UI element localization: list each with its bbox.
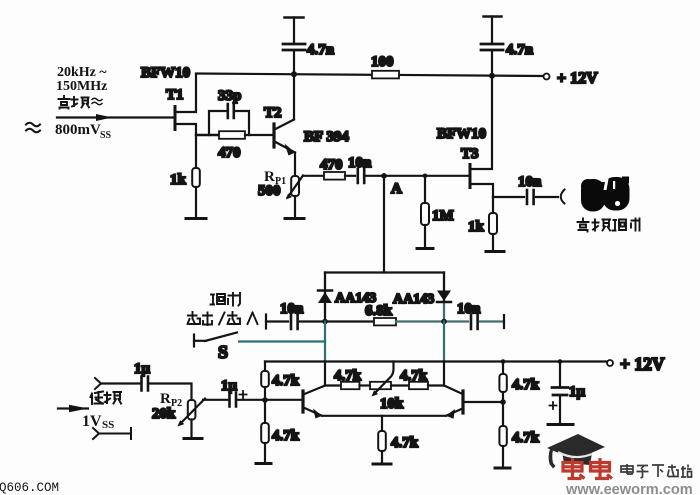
wire right 4.7k stack top lead: [502, 362, 504, 375]
svg-text:T3: T3: [461, 146, 479, 162]
wire left 4.7k stack top lead: [264, 362, 266, 372]
svg-text:10n: 10n: [457, 301, 481, 317]
wire 6.8k to 10n right: [396, 320, 468, 322]
svg-text:S: S: [218, 342, 228, 362]
wire top +12V rail: [196, 74, 543, 77]
potentiometer RP2 wiper arrow: [180, 399, 205, 425]
transistor T2 emitter arrowhead: [285, 144, 296, 156]
transistor Q1 (left, diff pair) base bar: [301, 391, 304, 412]
svg-text:20k: 20k: [152, 406, 176, 422]
transistor T2 collector: [276, 74, 295, 129]
wire Q2 base to right stack: [465, 401, 504, 403]
svg-text:4.7n: 4.7n: [506, 42, 534, 58]
resistor 4.7k (right top): [499, 374, 506, 392]
junction dot node top-right (T3 drain / C 4.7n): [489, 73, 495, 79]
junction dot (1u decoupling / rail): [558, 359, 563, 364]
ground (emitter 4.7k): [373, 463, 391, 466]
diode box left vertical upper: [324, 273, 326, 322]
wire C1 top lead: [293, 18, 295, 43]
svg-text:T1: T1: [166, 87, 184, 103]
transistor T3 drain: [472, 76, 493, 169]
LF arrow: [58, 407, 88, 409]
chain wire left: [325, 384, 341, 386]
svg-text:470: 470: [320, 157, 343, 173]
svg-text:Q606.COM: Q606.COM: [0, 481, 59, 495]
svg-text:4.7k: 4.7k: [512, 430, 540, 446]
capacitor 1u (to base) plates: [230, 393, 237, 407]
output terminal arc: [561, 190, 565, 204]
svg-text:1k: 1k: [170, 172, 187, 188]
switch S lever: [205, 333, 237, 342]
terminal +12V (bottom): [607, 360, 613, 366]
wire bottom +12V rail: [265, 360, 607, 362]
wire base junction down: [264, 400, 266, 423]
wire 10n to node A to T3 gate: [366, 175, 470, 177]
resistor 470 (wiper): [324, 172, 345, 180]
diode D2 AA143 cathode bar: [437, 301, 451, 304]
svg-text:1V: 1V: [82, 413, 102, 430]
svg-text:1k: 1k: [468, 219, 485, 235]
svg-text:4.7k: 4.7k: [272, 428, 300, 444]
junction dot (left base node): [262, 397, 268, 403]
potentiometer RP1 body: [291, 176, 299, 196]
resistor 1k (T1 source): [192, 168, 200, 187]
potentiometer RP1 wiper arrow: [288, 176, 304, 198]
potentiometer 10k wiper arrow: [374, 362, 394, 395]
wavy symbol after 高频: [92, 98, 102, 105]
resistor 1M: [421, 203, 429, 225]
wire 470 to T2 base: [245, 134, 273, 136]
transistor T2 base bar: [272, 124, 275, 147]
transistor T1 source: [177, 124, 197, 135]
capacitor 10n (output) plates: [527, 190, 534, 204]
LF amplitude indicator: [93, 428, 131, 439]
wire node A down to diode box: [383, 176, 385, 273]
chain wire right: [428, 384, 444, 386]
label 调制 (pseudo glyphs): [211, 293, 241, 306]
capacitor 10n (mid left) plates: [291, 315, 298, 330]
svg-text:4.7n: 4.7n: [307, 42, 335, 58]
wire C1 bottom lead: [293, 52, 295, 75]
wire 1M to ground: [424, 225, 426, 248]
ground (left stack): [256, 462, 271, 465]
svg-text:6.8k: 6.8k: [365, 303, 393, 319]
capacitor C2 4.7n (right) top stub bar: [484, 15, 502, 18]
resistor 4.7k (chain left): [341, 382, 360, 389]
capacitor 10n (mid right) plates: [471, 315, 478, 330]
transistor T1 (FET) gate bar: [174, 107, 177, 130]
label 1Vss: [82, 413, 114, 431]
watermark 电子下载站 (pseudo glyphs): [621, 464, 692, 478]
watermark graduation cap logo: [547, 434, 605, 469]
capacitor 1u (LF input) plates: [142, 377, 149, 391]
svg-text:10k: 10k: [380, 396, 404, 412]
resistor 4.7k (emitter): [378, 431, 386, 451]
junction dot (D1 / mid line): [322, 319, 328, 325]
svg-text:BFW10: BFW10: [141, 65, 190, 81]
wire emitter bus to 4.7k: [381, 416, 383, 431]
transistor Q1 collector: [305, 386, 326, 395]
resistor 4.7k (right bottom): [499, 426, 506, 446]
wire C2 bottom lead: [491, 52, 493, 76]
ref label RP1: [264, 169, 286, 187]
transistor Q2 emitter arrowhead: [446, 409, 455, 419]
resistor 100 (rail): [372, 71, 399, 79]
wire 1k to ground: [195, 187, 197, 218]
plus sign (decoupling): [550, 402, 557, 409]
svg-text:500: 500: [258, 183, 281, 199]
resistor 4.7k (left top): [261, 371, 269, 387]
svg-text:R: R: [160, 391, 171, 407]
ground (RP2): [184, 437, 202, 440]
svg-text:470: 470: [218, 145, 241, 161]
resistor 6.8k: [374, 318, 396, 325]
svg-text:800mV: 800mV: [55, 122, 101, 138]
svg-text:AA143: AA143: [393, 292, 434, 307]
wire to base junction: [264, 387, 266, 400]
wire T3 source to 10n out: [493, 196, 524, 198]
svg-text:4.7k: 4.7k: [272, 373, 300, 389]
svg-text:1μ: 1μ: [221, 378, 238, 394]
wire RP2 to ground: [190, 420, 192, 439]
svg-text:1M: 1M: [432, 208, 454, 224]
svg-text:1μ: 1μ: [569, 384, 586, 400]
svg-text:T2: T2: [264, 105, 282, 121]
potentiometer 10k body: [370, 382, 391, 389]
wire input with arrow: [57, 116, 175, 118]
wire to base junction: [502, 392, 504, 402]
transistor Q2 emitter: [446, 409, 462, 416]
approx symbol: [26, 123, 40, 133]
svg-text:SS: SS: [100, 130, 112, 141]
wire RP1 wiper to 470: [303, 175, 324, 177]
diode D1 AA143 cathode bar: [318, 289, 332, 292]
transistor Q2 (right, diff pair) base bar: [461, 391, 464, 413]
mid line left end bar: [265, 315, 267, 329]
emitter bus wire: [322, 415, 446, 417]
capacitor C1 plates: [283, 44, 305, 50]
input HF text block: [56, 65, 107, 94]
watermark 虫虫 (pseudo glyphs, red): [563, 458, 612, 479]
wire 4.7k to ground: [381, 451, 383, 464]
ground (T1 source): [186, 217, 206, 220]
svg-text:+ 12V: + 12V: [620, 354, 665, 374]
wire to ground: [502, 446, 504, 468]
transistor T1 drain: [177, 74, 197, 112]
chain wire: [360, 384, 371, 386]
wire 1u to RP2: [150, 384, 192, 401]
wire RP2 wiper to 1u: [203, 399, 228, 401]
wire T1 source to 1k: [195, 135, 197, 168]
diode box top wire: [325, 271, 444, 273]
wire T2 emitter down: [294, 153, 296, 177]
diode box right vertical lower (teal tinted): [443, 322, 445, 362]
svg-text:SS: SS: [102, 419, 114, 431]
junction dot node top-left (T1 drain / C 4.7n / T2 collector): [291, 71, 297, 77]
transistor T3 source: [472, 184, 494, 197]
capacitor 33p plates: [228, 104, 234, 118]
wire 10n to output terminal: [536, 196, 558, 198]
svg-text:20kHz ~: 20kHz ~: [57, 65, 107, 80]
diode D1 AA143 triangle: [318, 292, 332, 303]
wire switch to diode box (teal tinted): [239, 340, 325, 342]
svg-text:www.eeworm.com: www.eeworm.com: [565, 482, 693, 495]
switch S terminal bar: [193, 335, 195, 347]
svg-text:4.7k: 4.7k: [334, 368, 362, 384]
svg-text:1μ: 1μ: [134, 361, 151, 377]
transistor Q1 emitter: [305, 408, 323, 416]
wire 1k to ground: [492, 234, 494, 251]
diode D2 AA143 triangle: [437, 291, 451, 302]
wire end bar to 10n: [266, 320, 288, 322]
diode box left vertical to chain: [324, 362, 326, 386]
wire 10n to 6.8k: [300, 320, 374, 322]
svg-text:4.7k: 4.7k: [400, 368, 428, 384]
svg-text:+ 12V: + 12V: [557, 70, 598, 87]
wire switch stub: [194, 340, 206, 342]
wire 1u to ground: [559, 396, 561, 424]
wire 1u decoupling top lead: [559, 362, 561, 388]
diode box right vertical upper: [443, 273, 445, 303]
svg-text:33p: 33p: [218, 88, 241, 104]
junction dot (right stack / rail): [501, 359, 506, 364]
svg-text:A: A: [391, 181, 402, 197]
ground (RP1): [285, 217, 304, 220]
label 800mVss: [55, 122, 112, 141]
wire RP1 to ground: [294, 196, 296, 218]
transistor T2 emitter: [276, 142, 296, 153]
terminal +12V (top): [544, 74, 550, 80]
resistor 470 (T1-T2): [219, 131, 245, 139]
label 输出/输入 (pseudo glyphs): [188, 312, 258, 325]
svg-text:10n: 10n: [348, 155, 372, 171]
wire LF input to 1u: [101, 382, 140, 384]
wire to ground: [264, 443, 266, 463]
label 高频调制 (pseudo glyphs): [578, 219, 640, 232]
mid line right end bar: [503, 315, 505, 328]
svg-text:4.7k: 4.7k: [512, 377, 540, 393]
capacitor C1 4.7n (left) top stub bar: [285, 16, 304, 19]
capacitor C2 plates: [481, 44, 503, 50]
LF input terminal: [95, 378, 101, 389]
resistor 4.7k (left bottom): [261, 423, 269, 443]
ground (1u decoupling): [548, 423, 573, 426]
transistor Q2 collector: [444, 386, 462, 394]
diode box right vertical lower segment (teal tint): [443, 302, 445, 322]
wire base junction down: [502, 402, 504, 426]
svg-text:10n: 10n: [280, 301, 304, 317]
HF modulation blob icon: [581, 177, 630, 212]
svg-text:BF 394: BF 394: [304, 129, 349, 145]
node A junction dot: [381, 173, 387, 179]
potentiometer RP2 body: [188, 400, 196, 420]
transistor Q1 emitter arrowhead: [313, 409, 322, 419]
junction dot (1M tap on node A line): [423, 174, 428, 179]
resistor 1k (T3): [489, 213, 497, 234]
wire T3 source to 1k: [492, 197, 494, 213]
ref label RP2: [160, 391, 182, 409]
ground (right stack): [495, 467, 510, 470]
wire 470 to 10n: [345, 175, 355, 177]
wire 1u to left BJT base: [238, 399, 303, 401]
ground (1M): [417, 247, 433, 250]
arrowhead input: [96, 114, 112, 121]
junction dot (right base node): [500, 399, 506, 405]
svg-text:4.7k: 4.7k: [391, 435, 419, 451]
junction dot (D2 / mid line): [441, 319, 447, 325]
chain wire: [391, 384, 409, 386]
svg-text:100: 100: [371, 54, 394, 70]
resistor 4.7k (chain right): [409, 382, 428, 389]
capacitor 10n (node A left) plates: [358, 169, 364, 183]
label 低频 (pseudo glyphs): [91, 392, 122, 405]
wire C2 top lead: [491, 17, 493, 43]
label 高频 (pseudo glyphs): [59, 96, 90, 109]
wire 10n to right end bar: [480, 320, 504, 322]
diode box left vertical lower (teal tinted): [324, 322, 326, 362]
svg-text:10n: 10n: [518, 174, 542, 190]
svg-text:150MHz: 150MHz: [56, 79, 107, 94]
capacitor 1u (decoupling) plates: [552, 388, 568, 396]
ground (T3 1k): [486, 250, 504, 253]
capacitor 33p bypass loop: [209, 111, 249, 135]
wire T1 source to 470: [196, 134, 219, 136]
transistor T3 gate bar: [469, 165, 472, 188]
diode box right vertical to chain: [443, 362, 445, 386]
plus sign (1u base): [240, 391, 247, 398]
svg-text:BFW10: BFW10: [437, 126, 486, 142]
wire 1M top lead: [424, 176, 426, 203]
